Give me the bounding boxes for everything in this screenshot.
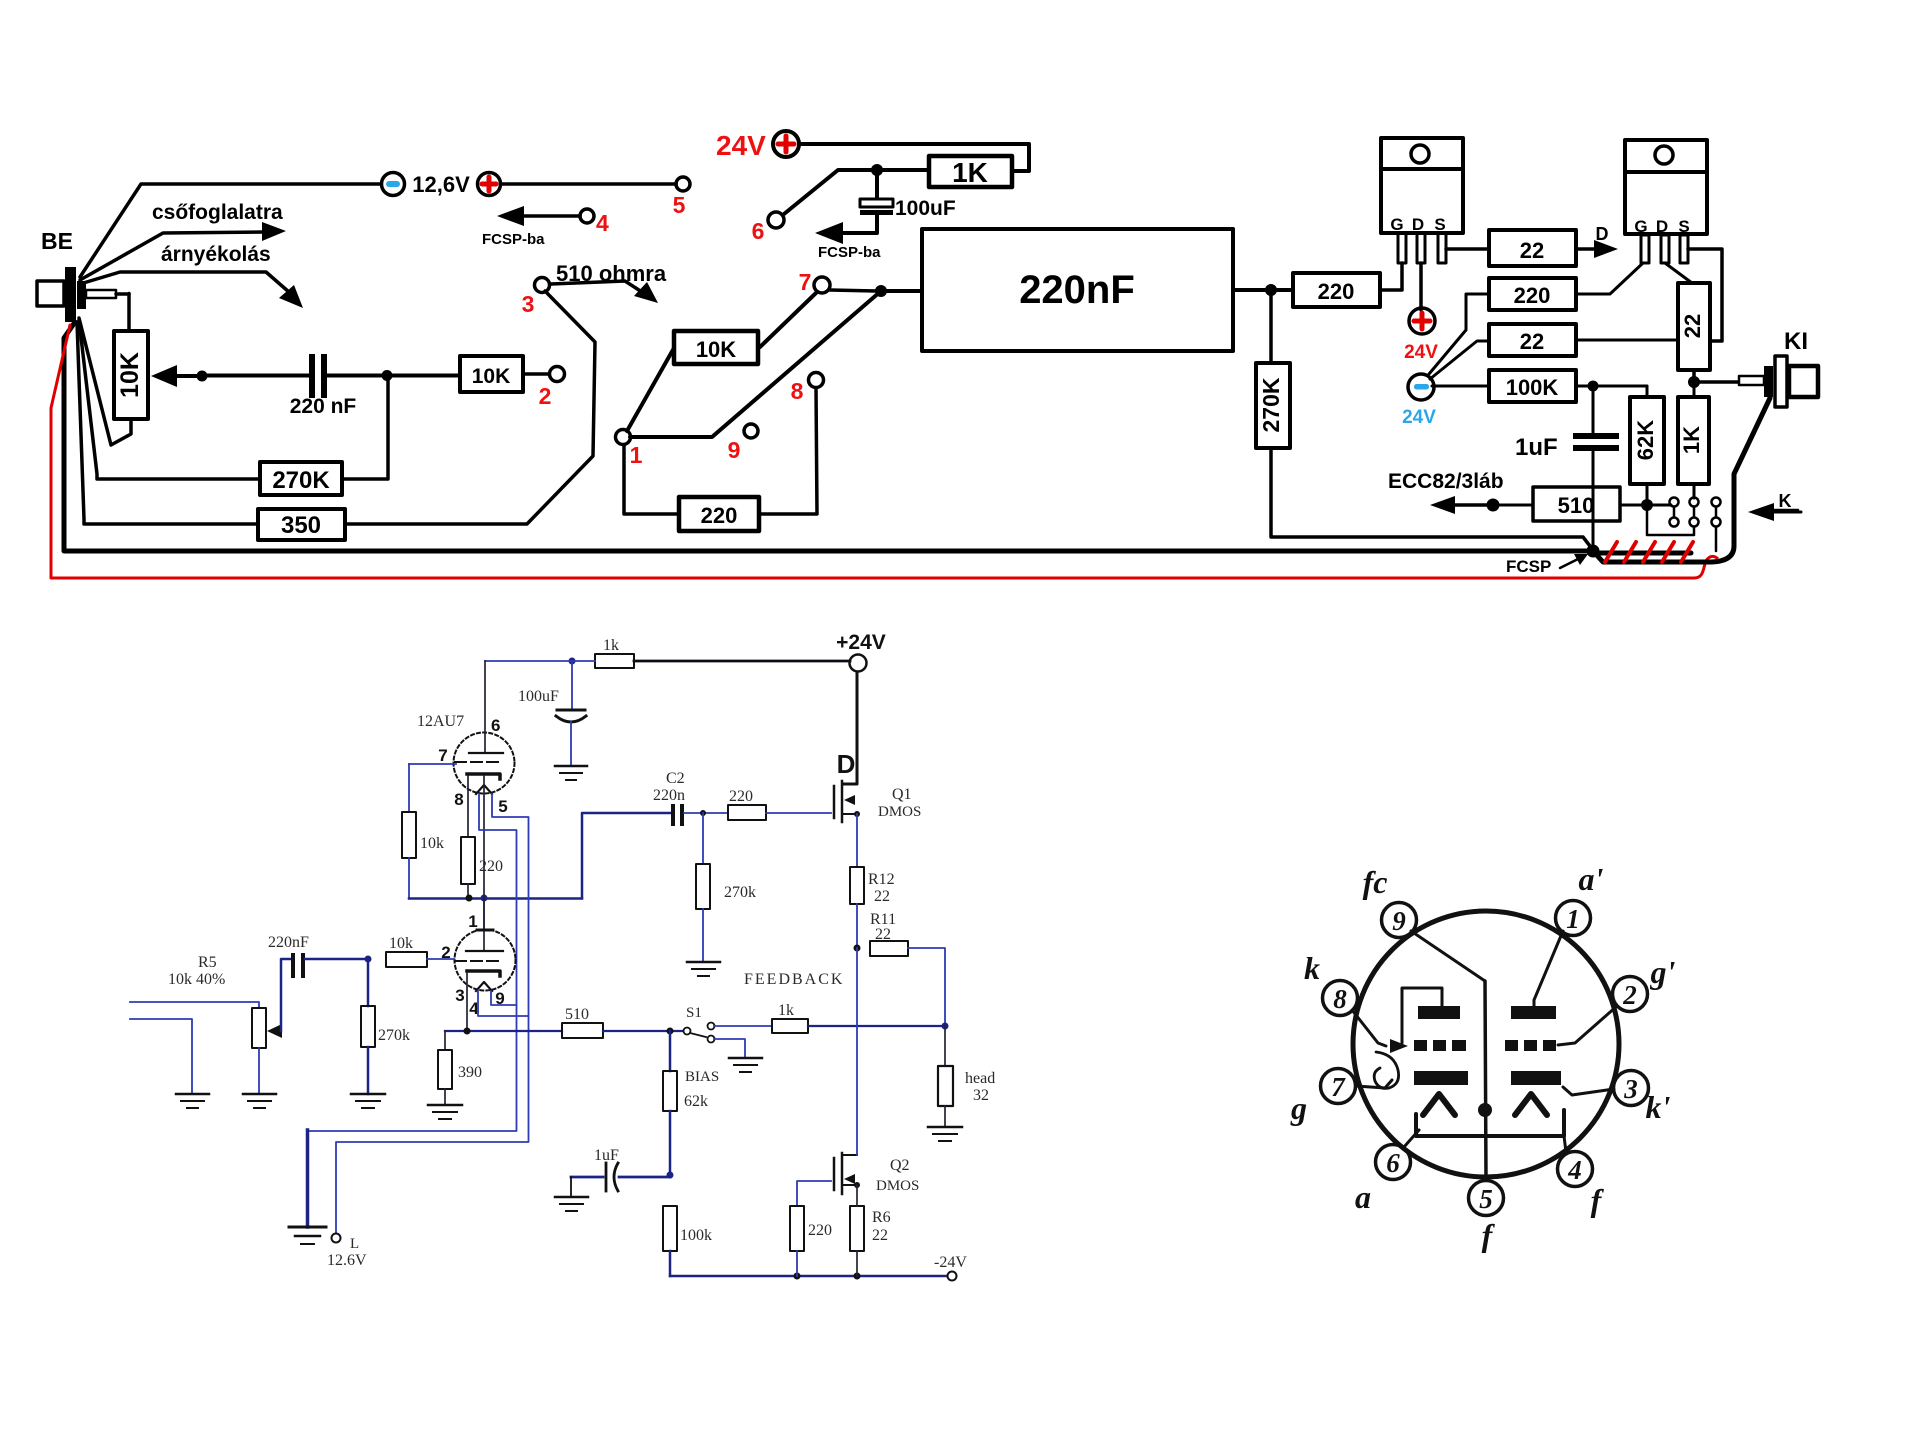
svg-text:22: 22 [1520,238,1544,263]
node rail 220 [794,1273,801,1280]
plus sign red [1414,313,1430,329]
terminal 24V plus [773,131,799,157]
wire plus terminal to point 5 [501,182,676,186]
ground for heater [289,1227,326,1244]
terminal L 12.6V [332,1234,341,1243]
pinout pin6 lead [1404,1130,1419,1147]
node FCSP junction [1587,545,1600,558]
wire S leg to 22 resistor [1446,247,1489,251]
grid dashes (upper triode) [455,761,498,763]
node point 2 terminal [550,367,565,382]
wire 1k to head node [808,1025,945,1027]
svg-text:g: g [1290,1090,1307,1126]
svg-text:fc: fc [1363,864,1388,900]
pinout right heater [1515,1094,1547,1115]
minus sign (blue) [386,181,400,187]
heater wire left tube1 down [308,794,517,1131]
wire junction to KI connector [1694,380,1740,384]
wire Q1 source to Q2 drain [856,948,858,1155]
svg-text:62k: 62k [684,1093,708,1110]
resistor 220 (lower middle) [679,497,759,531]
svg-text:D: D [1596,224,1609,244]
svg-text:220: 220 [729,788,753,805]
svg-text:S: S [1678,217,1689,236]
wire junction down to 270K right side [342,378,388,479]
pot wiper arrow [267,959,291,1038]
node 220 bottom [466,895,473,902]
pinout right anode bar [1511,1006,1556,1019]
wire S1 to ground [714,1039,745,1058]
svg-text:DMOS: DMOS [876,1178,919,1194]
wire minus terminal to 22 (diagonal) [1430,341,1489,379]
svg-text:ECC82/3láb: ECC82/3láb [1388,470,1504,493]
svg-text:62K: 62K [1633,420,1658,460]
wire 220 to point 1 [624,445,679,514]
node point 9 terminal [744,424,758,438]
resistor 270k (grid leak) [361,959,375,1094]
svg-text:510: 510 [565,1006,589,1023]
wire wiper to 220nF cap [202,374,310,378]
pin circle 3 [1614,1071,1649,1106]
svg-text:2: 2 [1622,980,1637,1010]
pin 1 anode lead [477,898,493,951]
wire minus terminal to 220 (diagonal) [1429,294,1489,374]
node 62k junction [667,1028,674,1035]
svg-text:270k: 270k [724,884,756,901]
wire big box output [1233,288,1293,292]
wire BE to 10K pot bottom [79,318,131,445]
svg-text:k': k' [1646,1089,1671,1125]
resistor 22 (second) [1489,324,1576,356]
transistor TO-220 package (left) [1381,138,1463,234]
pinout center lead (pin 9 to pin 5) [1411,931,1492,1178]
tube 12AU7 upper triode envelope [454,733,515,794]
svg-text:1: 1 [630,442,643,468]
pin G leg (right TO-220) [1641,235,1649,263]
wire point 7 to 10K diagonal [760,292,817,347]
wire BE to 12,6V minus terminal [80,184,381,277]
pinout right cathode bar [1511,1071,1561,1085]
resistor 270K (vertical) [1256,290,1290,448]
svg-text:22: 22 [872,1227,888,1244]
svg-text:1: 1 [468,912,477,931]
svg-text:FEEDBACK: FEEDBACK [744,971,844,988]
wire socket bracket [1647,505,1694,535]
svg-text:Q2: Q2 [890,1157,910,1174]
svg-text:7: 7 [1331,1072,1346,1102]
svg-text:350: 350 [281,512,321,539]
svg-text:22: 22 [875,926,891,943]
wire +24V rail [634,660,850,663]
capacitor 220 nF [309,354,327,398]
wire diagonal from point 1 to big box input [630,291,922,437]
svg-text:a: a [1355,1179,1371,1215]
node 510 right junction [1641,499,1653,511]
svg-text:FCSP: FCSP [1506,557,1551,576]
terminal 24V plus (right section) [1409,308,1435,334]
svg-text:220nF: 220nF [268,934,309,951]
wire 350 to point 3 [345,291,595,524]
resistor 10k (lower grid) [386,952,454,967]
resistor 22 (vertical) [1678,283,1710,370]
wire socket pin3 to bus [1715,527,1718,551]
arrow to D label [1576,240,1618,258]
resistor 390 [438,1031,452,1105]
svg-text:4: 4 [1567,1155,1582,1185]
wire 100K to 62K junction [1576,385,1647,388]
svg-text:BE: BE [41,228,73,254]
terminal -24V [948,1272,957,1281]
ground for 100uF [555,766,587,780]
resistor 510 (schematic) [562,1023,603,1038]
pin circle 5 [1469,1181,1504,1216]
wire 510 to socket [1620,504,1671,507]
KI connector (output jack) [1739,356,1818,407]
svg-text:1K: 1K [1679,426,1704,454]
wire +24V down to Q1 drain [843,672,857,784]
wire point 7 to junction [830,290,876,291]
resistor 220 (Q1 gate) [728,805,831,820]
node C2 right junction [700,810,706,816]
svg-text:C2: C2 [666,770,685,787]
node rail R6 [854,1273,861,1280]
wire junction to 510 [1493,504,1533,507]
resistor 10K (horizontal, to point 2) [460,356,523,392]
tube socket pins (3 pairs) [1670,498,1721,527]
svg-text:8: 8 [454,790,463,809]
svg-text:g': g' [1650,954,1676,990]
svg-text:1uF: 1uF [594,1147,619,1164]
svg-text:2: 2 [539,383,552,409]
resistor 1k (top rail) [595,654,634,668]
svg-text:24V: 24V [716,130,766,161]
pinout right grid dashes [1505,1040,1556,1051]
svg-text:100k: 100k [680,1227,712,1244]
resistor 220 (cathode upper) [461,776,475,898]
svg-text:1k: 1k [778,1002,794,1019]
ground 270k C2 [687,962,720,976]
resistor 22 (top) [1489,230,1576,266]
resistor BIAS 62k [663,1031,677,1173]
capacitor 100uF [860,176,893,215]
svg-text:12.6V: 12.6V [327,1252,367,1269]
node KI junction [1688,376,1700,388]
arrow to ECC82 [1430,496,1487,514]
wire D leg to vertical 22 [1665,263,1692,283]
svg-text:220nF: 220nF [1019,268,1135,312]
terminal 24V minus [1408,374,1434,400]
svg-text:3: 3 [522,291,535,317]
ground 1uF [555,1177,588,1211]
node cathode junction [464,1028,471,1035]
svg-text:5: 5 [498,797,507,816]
wire cap to 10K resistor [327,374,460,378]
node R11 junction [854,945,861,952]
svg-text:7: 7 [799,269,812,295]
svg-text:1K: 1K [952,157,988,188]
ground 390 [428,1105,462,1119]
svg-text:FCSP-ba: FCSP-ba [818,244,881,261]
terminal 12,6V plus [478,173,501,196]
thick wire KI down to FCSP [1593,398,1770,562]
pinout left heater [1423,1094,1455,1115]
resistor 220 (Q2 gate) [790,1181,831,1276]
svg-text:10K: 10K [472,365,511,388]
FCSP-ba arrow (left) [497,206,580,226]
svg-text:KI: KI [1784,328,1808,355]
thick ground drop 12.6V [306,1130,310,1227]
heater (upper triode) [476,785,492,794]
node wiper junction [197,371,208,382]
node output junction [1265,284,1277,296]
svg-text:5: 5 [673,192,686,218]
node point 6 terminal [768,212,784,228]
svg-text:220: 220 [701,503,738,528]
ground pot [243,1094,276,1108]
svg-text:Q1: Q1 [892,786,912,803]
pin G leg (left TO-220) [1398,233,1406,263]
FCSP-ba arrow (middle) [815,215,877,244]
minus sign blue [1414,384,1429,390]
resistor 350 [258,509,345,540]
svg-text:3: 3 [455,986,464,1005]
capacitor 100uF (schematic) [556,661,586,766]
pinout left anode bar [1418,1006,1460,1019]
resistor 1K [929,156,1012,188]
svg-text:1: 1 [1566,904,1580,934]
wire BE to 270K resistor [79,320,260,479]
pin circle 6 [1376,1145,1411,1180]
wire BE to 10K pot top [127,294,131,332]
svg-text:L: L [350,1236,359,1252]
svg-text:8: 8 [1333,984,1347,1014]
svg-text:-24V: -24V [934,1254,967,1271]
svg-text:100uF: 100uF [518,688,559,705]
svg-text:32: 32 [973,1087,989,1104]
cathode bar (upper triode) [467,774,500,779]
capacitor block 220nF (large box) [922,229,1233,351]
pin circle 8 [1323,981,1358,1016]
svg-text:1k: 1k [603,637,619,654]
node 510 left junction [1487,499,1500,512]
anode plate (lower triode) [466,950,503,952]
svg-text:D: D [1412,215,1424,234]
resistor 510 [1533,487,1620,521]
hatched shield wire [1597,551,1691,556]
wire D leg to +24V terminal [1419,263,1423,310]
node cap-right junction [382,370,393,381]
svg-text:22: 22 [1520,329,1544,354]
wire bus up to C2 [582,813,671,898]
resistor R11 22 [870,941,945,1026]
terminal 12,6V minus [382,173,405,196]
tube 12AU7 lower triode envelope [455,930,516,991]
node point 3 terminal [535,278,550,293]
ground 270k [351,1094,385,1108]
cathode bar (lower triode) [467,971,500,976]
svg-text:head: head [965,1070,995,1087]
svg-text:k: k [1304,950,1320,986]
wire S leg loop to vertical 22 right [1688,249,1722,341]
svg-text:FCSP-ba: FCSP-ba [482,231,545,248]
resistor 10K (middle) [674,331,758,364]
svg-text:8: 8 [791,378,804,404]
node point 7 terminal [814,277,830,293]
potentiometer R5 10k [252,1008,266,1048]
svg-text:10k: 10k [389,935,413,952]
node 100K output junction [1588,381,1599,392]
svg-text:9: 9 [1392,906,1406,936]
svg-text:6: 6 [1386,1148,1400,1178]
svg-text:3: 3 [1623,1074,1638,1104]
svg-text:10k: 10k [420,835,444,852]
svg-text:R12: R12 [868,871,895,888]
svg-text:R5: R5 [198,954,217,971]
source chain R12 [850,814,864,948]
resistor 270k (C2 load) [696,813,710,962]
wire 22 to vertical 22 resistor [1576,339,1678,342]
resistor 10k (upper grid) [402,764,416,898]
feedback bus wire [445,1030,562,1032]
node big-box input junction [875,285,887,297]
resistor 270K [260,462,342,495]
svg-text:10K: 10K [116,352,144,398]
transistor Q1 DMOS [834,781,860,822]
svg-text:510: 510 [1558,493,1595,518]
pin D leg (left TO-220) [1417,233,1425,263]
svg-text:4: 4 [596,210,609,236]
svg-text:100K: 100K [1506,375,1559,400]
svg-text:270K: 270K [272,467,330,494]
node point 8 terminal [809,373,824,388]
wire 270K bottom to FCSP node [1271,448,1593,550]
K arrow [1748,503,1801,521]
wire 220 to G leg of right TO-220 [1576,263,1643,294]
transistor Q2 DMOS [834,1153,860,1206]
resistor 1K (vertical right) [1678,382,1709,498]
resistor 220 (box output) [1293,273,1380,307]
svg-text:1uF: 1uF [1515,434,1558,461]
node anode link [481,895,488,902]
svg-text:12AU7: 12AU7 [417,713,464,730]
pin circle 2 [1613,977,1648,1012]
svg-text:6: 6 [491,716,500,735]
wire junction to point 6 [784,170,871,214]
svg-text:390: 390 [458,1064,482,1081]
potentiometer 10K (vertical) [114,331,148,419]
resistor 62K (vertical) [1630,386,1664,504]
resistor head 32 [938,1026,953,1127]
resistor 220 (right bank) [1489,278,1576,310]
pin D leg (right TO-220) [1661,235,1669,263]
wire common node bus [409,897,582,900]
svg-text:G: G [1634,217,1647,236]
pot bottom to ground [258,1048,260,1094]
svg-text:12,6V: 12,6V [412,172,470,197]
pinout pin3 lead to right cathode [1563,1087,1614,1095]
cathode lead lower triode [466,973,468,1031]
BE connector (input jack) [37,267,129,322]
pinout pin8 lead with arrow [1352,1010,1408,1053]
red wire from BE to FCSP area [51,325,1717,578]
svg-text:22: 22 [1680,314,1705,338]
arnyekolas annotation arrow [80,272,303,308]
svg-text:10K: 10K [696,337,736,362]
capacitor 220nF (coupling) [291,953,368,978]
node head junction [942,1023,949,1030]
capacitor 1uF [1573,386,1619,546]
svg-text:220n: 220n [653,787,685,804]
pin 7 grid lead [409,763,456,765]
node point 5 terminal [676,177,690,191]
wire 22 bottom to KI junction [1692,370,1696,382]
long ground bus wire from BE along bottom [64,322,1591,551]
svg-text:a': a' [1579,861,1604,897]
svg-text:csőfoglalatra: csőfoglalatra [152,201,283,224]
K underline [1772,509,1798,512]
svg-text:BIAS: BIAS [685,1069,719,1085]
plus sign red [778,136,794,152]
pinout left grid-anode strap [1402,988,1442,1043]
pin circle 7 [1321,1069,1356,1104]
pinout pin7 lead and loop [1356,1052,1399,1088]
svg-text:24V: 24V [1402,407,1436,428]
node grid junction [365,956,372,963]
pinout pin4 lead [1564,1136,1566,1152]
svg-text:S1: S1 [686,1005,702,1021]
resistor 100k [663,1206,677,1276]
anode plate (upper triode) [469,752,503,754]
capacitor C2 220n [671,804,728,826]
svg-text:220 nF: 220 nF [290,395,357,418]
wire tube1 cathode area to tube2 anode [483,776,485,930]
terminal +24V [850,655,867,672]
pinout pin1 lead to right anode [1534,931,1563,1006]
pin 9 heater wire [491,991,517,1005]
svg-text:árnyékolás: árnyékolás [161,243,271,266]
svg-text:9: 9 [728,437,741,463]
svg-text:S: S [1434,215,1445,234]
capacitor 1uF (schematic) [571,1163,670,1191]
node junction above 100uF [871,164,883,176]
wire 10K to point 2 [523,372,549,376]
svg-text:6: 6 [752,218,765,244]
pin S leg (right TO-220) [1680,235,1688,263]
pinout heater bus U shape [1416,1110,1564,1136]
wire S1 to 1k feedback [714,1025,772,1027]
svg-text:K: K [1779,491,1792,511]
wire 24V to 1K resistor [799,144,1029,171]
svg-text:24V: 24V [1404,342,1438,363]
node point 4 terminal [580,209,594,223]
pin circle 4 [1558,1152,1593,1187]
tube pinout: envelope circle [1353,911,1619,1177]
-24V bottom rail [670,1275,947,1278]
svg-text:10k 40%: 10k 40% [168,971,225,988]
pin S leg (left TO-220) [1438,233,1446,263]
svg-text:7: 7 [438,746,447,765]
510 ohmra annotation arrow [551,281,658,303]
svg-text:220: 220 [808,1222,832,1239]
input wire top [130,1002,259,1008]
pin 6 anode lead [484,661,486,752]
ground input [176,1094,209,1108]
svg-text:220: 220 [1318,279,1355,304]
csofoglalatra annotation arrow [80,222,286,280]
svg-text:220: 220 [1514,283,1551,308]
switch S1 [684,1023,715,1043]
svg-text:G: G [1390,215,1403,234]
